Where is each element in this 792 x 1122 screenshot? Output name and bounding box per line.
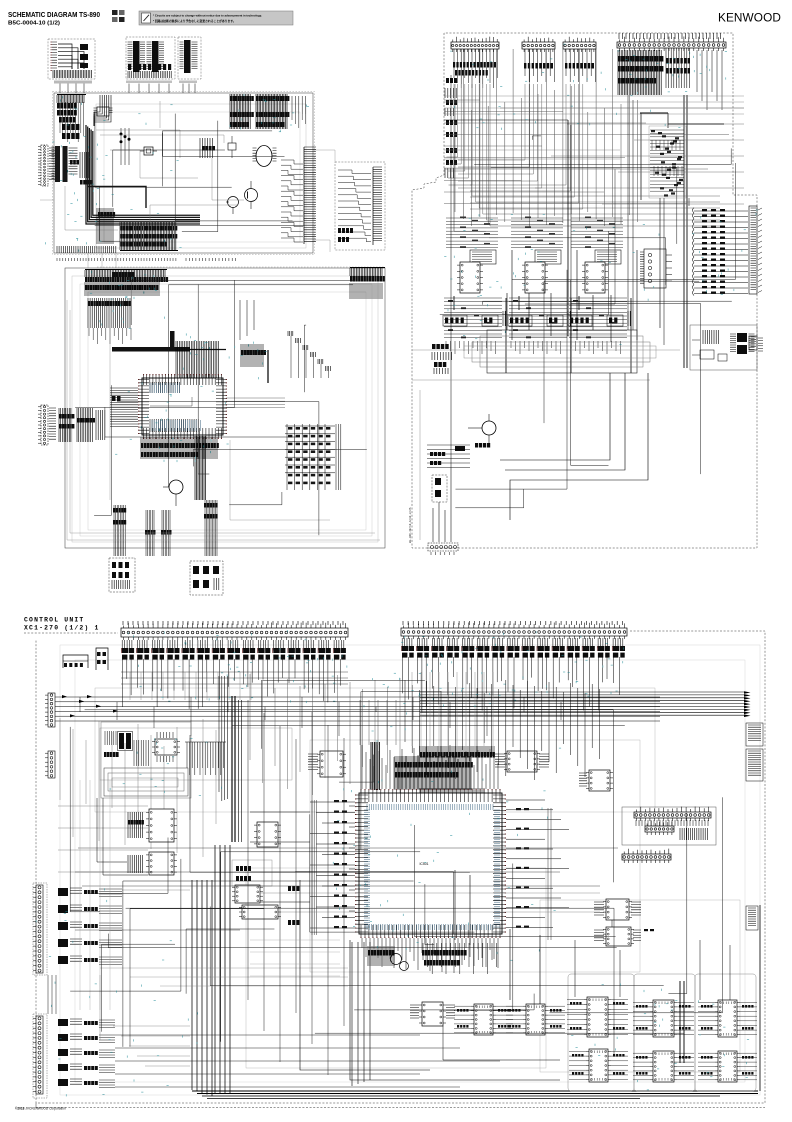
wire routes top-right cluster [440, 136, 736, 508]
connector CN52 [401, 621, 627, 639]
sub-circuit IC42 [508, 217, 577, 374]
connector CN51 [121, 621, 348, 640]
small comb below QFP2 [368, 946, 395, 966]
mid band verticals [250, 674, 400, 796]
svg-text:KENWOOD: KENWOOD [718, 11, 781, 25]
crystal X1 [140, 147, 157, 155]
ic bar U12 [52, 146, 61, 182]
QFP2 right wire fan [506, 800, 569, 940]
left comb blocks M2 [112, 272, 134, 277]
ic U54 [232, 822, 281, 886]
arrow bus right [420, 691, 751, 717]
ic U53 [128, 852, 177, 875]
inter-module wires [40, 150, 335, 268]
left fan QFP1 [110, 388, 138, 426]
ic grid U62 [567, 997, 628, 1037]
bottom bundle 3 [161, 510, 172, 556]
bottom connector CN46 [428, 543, 458, 555]
left stack CN55 [33, 883, 47, 975]
blue inner ticks QFP1 [150, 383, 200, 431]
transistor Q1 [245, 181, 258, 209]
wires between CN52 band and QFP2 [360, 680, 599, 780]
drops CN43 [565, 49, 595, 82]
deep vertical wires mid cluster [248, 700, 344, 1075]
ic grid U64 [633, 1000, 694, 1037]
bottom long wires [100, 870, 730, 1080]
ic block B2 [126, 37, 175, 83]
oval ic U14 [253, 146, 277, 167]
long horizontals topright [444, 100, 744, 204]
left edge connector CN53 [45, 693, 55, 727]
rounded group box 1 [568, 974, 634, 1091]
ic QFP1 [138, 374, 227, 439]
lower connector [622, 849, 671, 863]
svg-text:IC501: IC501 [419, 862, 428, 866]
wire routes module M2 [75, 280, 367, 535]
ic U56 [495, 751, 549, 772]
resistor ladder [693, 208, 763, 296]
ic U61 [594, 920, 654, 946]
right sub box R2 [690, 325, 763, 370]
connector CN44 [617, 33, 726, 51]
tick separator row [57, 258, 236, 261]
dense comb CN44 b [666, 48, 690, 88]
nested bus rects topright [464, 293, 656, 373]
mid gray web [80, 672, 493, 1010]
ic U69 [454, 1004, 513, 1035]
left edge connector CN54 [45, 751, 55, 778]
combs above QFP2 a [371, 742, 473, 790]
QFP2 top drops [362, 745, 498, 789]
comb group M1 topright B [256, 94, 289, 129]
wires B-blocks to M1 [60, 84, 195, 94]
comb singles M1 right [292, 96, 306, 128]
ic U58 [232, 885, 263, 903]
connector block B1 [48, 39, 95, 84]
top-right boundary [412, 33, 757, 548]
module box M1 [53, 92, 315, 255]
KENWOOD logo [718, 11, 781, 25]
bottom bundle 2 [145, 510, 156, 556]
bus under CN51 [121, 672, 348, 684]
comb below QFP1 [141, 437, 219, 459]
control unit label [24, 617, 100, 632]
connector CN41 [451, 37, 499, 52]
ic block B3 [178, 37, 201, 83]
ic grid U67 [698, 1051, 757, 1082]
QFP2 left wire fan [250, 800, 355, 935]
footer text [15, 1107, 66, 1111]
ic grid U63 [569, 1049, 628, 1082]
vertical bundle near QFP2 bottom [100, 942, 370, 1086]
boxed label JP61 [746, 723, 763, 746]
ic U55 [308, 751, 346, 777]
svg-text:XC1-270 (1/2) 1: XC1-270 (1/2) 1 [24, 625, 100, 632]
blue inner ticks QFP2 [364, 804, 500, 930]
ic QFP2 IC501 [355, 789, 506, 938]
capacitor C15 [228, 136, 236, 158]
svg-text:SCHEMATIC DIAGRAM TS-890: SCHEMATIC DIAGRAM TS-890 [8, 10, 100, 19]
svg-text:CONTROL UNIT: CONTROL UNIT [24, 617, 84, 624]
drops below QFP2 [422, 943, 497, 974]
vert bundle below QFP1 [195, 436, 206, 500]
dashed box parts A [109, 558, 135, 592]
comb rows top M2 [85, 270, 168, 297]
right edge comb CN57 [746, 906, 758, 930]
svg-text:©2018 JVCKENWOOD Corporation: ©2018 JVCKENWOOD Corporation [15, 1107, 66, 1111]
QFP2 bottom drops [362, 938, 498, 973]
transistors below QFP2 [391, 954, 409, 971]
clump band CN52 [401, 638, 625, 713]
R2 comb [749, 336, 757, 350]
drops above IA1 [219, 676, 227, 801]
bottom bundle 4 [204, 500, 218, 556]
singles CN44 [697, 50, 722, 110]
comb row M1 top-left [57, 95, 86, 123]
hanging comb IA1 [185, 742, 226, 775]
ladder connector [749, 206, 757, 294]
ic grid U65 [633, 1051, 694, 1082]
long horizontal rails mid cluster [75, 848, 618, 930]
right nested box combs [622, 807, 716, 846]
ic grid U66 [698, 1000, 757, 1037]
ic U52 [128, 809, 177, 842]
center vertical bundles [192, 845, 760, 1099]
drops CN42 [524, 49, 554, 82]
sub-circuit IC41 [443, 217, 512, 374]
comb cluster left QFP1 b [77, 408, 95, 442]
comb above QFP1 [176, 341, 219, 378]
wires mid-left web [58, 718, 216, 875]
thick bus bundle M1 [86, 95, 200, 224]
transistor Q2 [226, 197, 239, 215]
right pin comb column M1 [281, 147, 316, 244]
label rows bl topright [427, 445, 470, 468]
combs above QFP2 b [420, 746, 495, 794]
right bus pair [640, 95, 724, 368]
bottom cluster boundary [24, 631, 765, 1108]
vertical net label [408, 507, 412, 543]
ic U11 [94, 107, 113, 116]
vertical chain [432, 468, 451, 542]
connector CN43 [563, 37, 596, 52]
comb above QFP1 right [241, 344, 266, 367]
dashed box parts B [190, 561, 223, 595]
left connector CN1 [38, 145, 56, 186]
sub box R1 [335, 162, 385, 250]
resistor grid RG1 [285, 424, 341, 490]
svg-text:WG.GND.4B/1X.A/02-0/2S: WG.GND.4B/1X.A/02-0/2S [408, 507, 412, 543]
staircase wires from CN41 [446, 84, 720, 226]
parts IA1 [104, 731, 148, 766]
connector CN42 [522, 37, 555, 52]
ic U59 [239, 905, 281, 919]
boxed label JP62 [746, 749, 763, 781]
M1 stray wires [65, 101, 244, 230]
module box M2 [65, 267, 385, 548]
thick vertical bus pair [232, 696, 242, 842]
comb mid-left M1 [97, 208, 115, 244]
clump band CN51 [121, 640, 346, 709]
ic U70 [506, 1004, 565, 1035]
svg-text:* Circuits are subject to chan: * Circuits are subject to change without… [153, 14, 262, 18]
comb right of U13 [80, 152, 92, 185]
left stack rows A [58, 888, 122, 965]
comb rows top M2 lower [88, 298, 131, 344]
mark icon [112, 10, 125, 22]
sub-circuit IC43 [568, 217, 637, 374]
left connector CN2 [38, 405, 56, 445]
ic area box IA1 [101, 722, 191, 798]
title SCHEMATIC DIAGRAM TS-890 [8, 10, 100, 27]
M2 long wires [67, 300, 380, 540]
rounded group box 3 [695, 974, 756, 1091]
stair combs right M2 [288, 331, 330, 378]
comb cluster left QFP1 a [59, 408, 74, 442]
bottom comb strip M1 [57, 246, 116, 253]
horizontal bus lines [55, 695, 660, 736]
mid-right part cluster [649, 126, 686, 198]
dense comb block M1 bottom [120, 222, 178, 251]
wire routes module M1 [95, 111, 304, 241]
ic U57 [579, 770, 613, 791]
svg-text:* 回路は技術の進歩により予告なしに変更されることがあります: * 回路は技術の進歩により予告なしに変更されることがあります。 [153, 19, 236, 23]
staircase wires from CN42 CN43 [458, 84, 583, 209]
left stack CN56 [33, 1014, 47, 1098]
left stack rows B [58, 1019, 115, 1088]
parts under Q41 [455, 443, 490, 451]
long verticals center topright [455, 49, 638, 227]
bottom nested gray rects [60, 645, 760, 1095]
transistor Q41 [468, 414, 496, 446]
caution note box [139, 11, 293, 25]
ic U51 [152, 732, 180, 762]
bottom-left long rails [48, 975, 500, 1087]
ic bar U13 [63, 146, 80, 182]
comb top-right M2 [350, 268, 385, 300]
ic U60 [594, 899, 641, 920]
wire routes bottom cluster [70, 680, 722, 1055]
svg-text:B5C-0004-10 (1/2): B5C-0004-10 (1/2) [8, 21, 60, 27]
resistor column mid M1 [200, 138, 215, 158]
thick bus bar M2 [112, 331, 226, 352]
bottom bundle 1 [113, 505, 126, 556]
ic U68 [410, 1002, 455, 1026]
drops CN41 [453, 49, 497, 88]
rounded group box 2 [634, 974, 695, 1091]
left bracket parts [63, 648, 108, 670]
part cluster M1 top-left [60, 102, 83, 142]
connector CN45 [640, 249, 672, 288]
comb cluster left QFP1 c [96, 410, 105, 440]
transistor Q3 [163, 480, 183, 506]
left bottom parts topright [432, 344, 452, 374]
dense comb CN44 a [618, 50, 663, 95]
left column parts [445, 78, 457, 178]
comb group M1 topright A [230, 94, 254, 129]
long wires topright [412, 75, 744, 540]
